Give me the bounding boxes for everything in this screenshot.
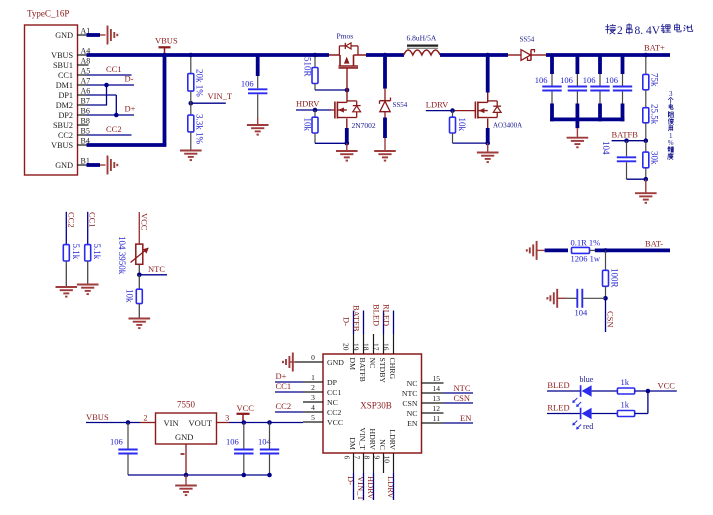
junction VIN_T node (189, 101, 194, 106)
wire 1k to VCC node (635, 390, 677, 392)
wire 2N7002 source to ground (thick) (346, 119, 348, 144)
pin 16 CHRG of U1 (382, 334, 398, 380)
junction gnd bus 106 (242, 473, 247, 478)
svg-text:red: red (583, 422, 593, 431)
junction CSN top (603, 248, 608, 253)
svg-text:20: 20 (342, 343, 351, 351)
wire CC2 from B5 (77, 134, 132, 136)
capacitor C 104 feedback (601, 141, 646, 180)
wire B7 stub (77, 104, 107, 106)
net label VIN_T (208, 91, 233, 101)
pin stub B8 (NC) (77, 124, 89, 126)
svg-text:104: 104 (601, 141, 611, 155)
pin 18 NC of U1 (362, 334, 378, 368)
svg-text:3: 3 (669, 90, 673, 98)
net label NTC at U1 right (454, 383, 471, 393)
net label BAT- (645, 238, 663, 248)
wire 0.1R to BAT- (thick) (595, 248, 670, 252)
junction 2N7002 source node (345, 141, 350, 146)
ground at B1 (rotated) (100, 156, 117, 175)
svg-text:6: 6 (343, 456, 352, 460)
resistor R 5.1k (CC2) (63, 244, 81, 287)
svg-text:CSN: CSN (454, 393, 471, 403)
svg-text:106: 106 (560, 75, 573, 85)
svg-text:D+: D+ (276, 371, 287, 381)
svg-text:VCC: VCC (139, 213, 149, 231)
wire D+ from B6 (77, 114, 134, 116)
svg-text:NC: NC (407, 409, 418, 418)
svg-text:30k: 30k (650, 151, 660, 165)
svg-text:AO3400A: AO3400A (493, 122, 522, 130)
wire diode to BAT+ (thick) (546, 53, 670, 57)
wire LED to 1k (592, 390, 618, 392)
net label D+ at B6 (125, 104, 136, 114)
junction bus at 510R (313, 53, 318, 58)
net label D- at A7 (125, 74, 134, 84)
net label CC2 at U1 (276, 401, 292, 411)
junction HDRV node (313, 108, 318, 113)
svg-text:BLED: BLED (372, 304, 382, 326)
wire 1k to VCC riser (635, 391, 648, 414)
svg-text:BAT-: BAT- (645, 238, 663, 248)
wire cap bank bottom bus (thick) (550, 118, 624, 122)
svg-text:BLED: BLED (547, 380, 569, 390)
resistor R 100R (603, 250, 620, 298)
junction bus at divider (644, 53, 649, 58)
resistor R 1k (BLED) (617, 377, 634, 394)
pin 8 HDRV of U1 (363, 429, 378, 473)
wire VIN_T (191, 91, 226, 103)
capacitor C 106 at VBUS (110, 423, 138, 476)
svg-text:19: 19 (352, 343, 361, 351)
svg-text:NC: NC (407, 379, 418, 388)
svg-text:VCC: VCC (658, 381, 676, 391)
svg-text:LDRV: LDRV (386, 476, 396, 499)
pin stub A8 (NC) (77, 64, 89, 66)
ground under cap bank (567, 119, 589, 147)
svg-text:%: % (668, 139, 674, 147)
regulator U2 7550 designator (177, 400, 196, 410)
wire D- from A7 (77, 84, 134, 86)
net label VCC at LEDs (658, 381, 676, 391)
svg-text:VBUS: VBUS (86, 412, 109, 422)
connector pin A7 DM1 (56, 77, 91, 90)
wire BATFB (612, 123, 646, 141)
pin 6 DM of U1 (343, 437, 358, 473)
capacitor C 104 sense (566, 289, 606, 318)
pin 9 NC of U1 (373, 439, 388, 473)
svg-text:CC2: CC2 (66, 212, 76, 228)
wire HDRV at U1 bottom (373, 473, 375, 500)
svg-text:CC2: CC2 (327, 408, 341, 417)
ground under 2N7002 (336, 143, 358, 160)
connector pin B8 SBU2 (53, 117, 90, 130)
net label CC1 at U1 (276, 381, 292, 391)
svg-text:3.3k 1%: 3.3k 1% (195, 114, 205, 145)
svg-text:B5: B5 (81, 127, 90, 136)
annotation battery title (chinese) (606, 24, 693, 37)
wire BLED at U1 top (383, 311, 385, 335)
net label CSN at U1 right (454, 393, 471, 403)
wire A6 DP1 (77, 95, 116, 115)
svg-text:100R: 100R (610, 268, 620, 288)
transistor Q3 AO3400A (475, 101, 522, 130)
pin 2 of 7550 (144, 413, 148, 422)
pin 19 BATFB of U1 (352, 334, 368, 382)
wire BATFB at U1 top (363, 311, 365, 335)
svg-text:6.8uH/5A: 6.8uH/5A (407, 34, 437, 43)
wire DM1 to DM2 vertical (106, 85, 108, 105)
capacitor C 106 input (241, 76, 268, 118)
svg-text:HDRV: HDRV (296, 99, 320, 109)
svg-text:7550: 7550 (177, 400, 196, 410)
connector pin A1 GND (55, 27, 90, 40)
net label HDRV at U1 bottom (366, 476, 376, 500)
connector pin B6 DP2 (58, 107, 89, 120)
resistor R 5.1k (CC1) (85, 244, 103, 285)
svg-text:NTC: NTC (454, 383, 471, 393)
svg-text:blue: blue (580, 375, 594, 384)
connector pin A5 CC1 (58, 67, 90, 80)
svg-text:GND: GND (327, 358, 344, 367)
svg-text:DM: DM (348, 358, 357, 371)
svg-text:CC2: CC2 (276, 401, 292, 411)
svg-text:VOUT: VOUT (189, 418, 213, 428)
junction CSN node (603, 296, 608, 301)
junction PMOS gate node (345, 88, 350, 93)
svg-text:CC2: CC2 (106, 124, 122, 134)
wire to SS54 anode (thick) (383, 57, 387, 101)
pin 7 VIN_T of U1 (353, 427, 368, 473)
inductor L1 6.8uH/5A (404, 34, 440, 56)
wire CC1 to U1 (275, 391, 303, 393)
wire 7550 ground bus (128, 474, 270, 476)
wire A1 GND (thick) (77, 34, 100, 36)
junction VCC node (242, 420, 247, 425)
wire PMOS gate node to 2N7002 drain (346, 90, 348, 102)
junction bus at SS54 freewheel (383, 53, 388, 58)
net label EN at U1 right (460, 413, 471, 423)
ground under AO3400A (477, 143, 499, 162)
svg-text:8: 8 (363, 456, 372, 460)
resistor R 510R (303, 57, 319, 84)
connector pin B4 VBUS (51, 137, 90, 150)
svg-text:5: 5 (311, 413, 315, 422)
wire inductor to diode (thick) (440, 53, 508, 57)
svg-text:B7: B7 (81, 97, 90, 106)
svg-text:D-: D- (342, 317, 352, 326)
wire D- at U1 bottom (353, 473, 355, 500)
svg-text:B8: B8 (81, 117, 90, 126)
wire RLED (547, 413, 581, 415)
svg-text:RLED: RLED (382, 304, 392, 326)
svg-text:9: 9 (373, 456, 382, 460)
svg-text:106: 106 (226, 437, 239, 447)
junction gnd bus center (184, 473, 189, 478)
svg-text:HDRV: HDRV (366, 476, 376, 500)
svg-text:VCC: VCC (327, 418, 343, 427)
pin 3 of 7550 (225, 413, 229, 422)
resistor R 10k (LDRV) (450, 111, 467, 144)
wire to AO3400A drain (thick) (486, 57, 490, 102)
net label LDRV (426, 100, 449, 110)
thermistor RT 104 3950k (117, 236, 149, 275)
net label CC2 at B5 (106, 124, 122, 134)
net label LDRV at U1 bottom (386, 476, 396, 499)
svg-text:A6: A6 (81, 87, 91, 96)
svg-text:DP1: DP1 (58, 91, 73, 100)
pin 10 LDRV of U1 (383, 429, 398, 473)
svg-text:CSN: CSN (606, 311, 616, 328)
junction AO3400A source node (485, 141, 490, 146)
wire 10k to AO3400A source (453, 142, 488, 144)
connector pin A6 DP1 (58, 87, 90, 100)
svg-text:15: 15 (433, 374, 441, 383)
resistor R 25.5k (643, 90, 660, 125)
svg-text:A7: A7 (81, 77, 91, 86)
junction VCC cap 104 (267, 420, 272, 425)
connector pin A8 SBU1 (53, 57, 90, 70)
svg-text:2N7002: 2N7002 (352, 121, 376, 130)
svg-text:75k: 75k (650, 73, 660, 87)
svg-text:CC2: CC2 (58, 131, 73, 140)
junction BATFB at cap (624, 138, 629, 143)
wire RLED at U1 top (393, 311, 395, 335)
svg-text:106: 106 (583, 75, 596, 85)
pin 13 CSN of U1 (402, 394, 443, 408)
pin 3 NC of U1 (303, 393, 338, 407)
svg-text:NTC: NTC (402, 389, 418, 398)
junction VCC LED node (646, 389, 651, 394)
svg-text:GND: GND (55, 31, 73, 40)
ground under CC1 resistor (77, 285, 99, 295)
svg-text:SS54: SS54 (393, 101, 408, 109)
pin 11 EN of U1 (407, 414, 443, 428)
resistor R 30k (643, 141, 660, 180)
svg-text:CC1: CC1 (276, 381, 292, 391)
svg-text:25.5k: 25.5k (650, 104, 660, 125)
wire NTC (139, 274, 167, 276)
net label VCC (thermistor) (139, 212, 149, 244)
svg-text:VBUS: VBUS (51, 51, 73, 60)
pin 5 VCC of U1 (303, 413, 343, 427)
svg-text:B6: B6 (81, 107, 90, 116)
power port VBUS top (155, 36, 178, 54)
resistor R 75k (643, 57, 660, 90)
svg-text:RLED: RLED (547, 403, 569, 413)
wire VBUS riser from B4 (thick) (77, 55, 166, 145)
ground under input 106 (247, 118, 269, 135)
svg-text:DP2: DP2 (58, 111, 73, 120)
svg-text:13: 13 (433, 394, 441, 403)
svg-text:CC1: CC1 (88, 212, 98, 228)
svg-text:17: 17 (372, 343, 381, 351)
svg-text:BAT+: BAT+ (644, 43, 665, 53)
svg-text:2: 2 (617, 25, 623, 37)
capacitor C 104 at VCC (258, 423, 279, 476)
svg-text:VBUS: VBUS (51, 141, 73, 150)
net label HDRV (296, 99, 320, 109)
net label CC1 (pulldown) (88, 212, 98, 245)
resistor R 3.3k 1% (188, 103, 205, 144)
svg-text:BATFB: BATFB (612, 130, 639, 140)
connector J1 TypeC_16P body (25, 25, 78, 175)
svg-text:SBU2: SBU2 (53, 121, 73, 130)
svg-text:106: 106 (535, 75, 548, 85)
junction bus at 20k divider (189, 53, 194, 58)
wire D- at U1 top (353, 311, 355, 335)
svg-text:7: 7 (353, 456, 362, 460)
svg-text:SS54: SS54 (520, 36, 535, 44)
wire LED to 1k (red) (592, 413, 618, 415)
junction gnd bus 104 (267, 473, 272, 478)
svg-text:CC1: CC1 (327, 388, 341, 397)
wire VIN_T at U1 bottom (363, 473, 365, 500)
junction bus at VBUS riser (162, 53, 167, 58)
wire AO3400A source to ground (thick) (487, 119, 489, 144)
wire LDRV (426, 110, 476, 112)
wire CSN at U1 right (444, 402, 474, 404)
svg-text:DM: DM (348, 437, 357, 450)
wire 10k to 2N7002 source (315, 142, 347, 144)
pin 15 NC of U1 (407, 374, 444, 388)
wire D+ to U1 (275, 381, 303, 383)
svg-text:VIN: VIN (164, 418, 179, 428)
svg-text:A5: A5 (81, 67, 91, 76)
svg-text:14: 14 (433, 384, 441, 393)
ground at 0.1R (rotated) (527, 241, 545, 260)
pin 1 DP of U1 (303, 373, 338, 387)
svg-text:TypeC_16P: TypeC_16P (27, 9, 69, 19)
svg-text:STDBY: STDBY (378, 358, 387, 384)
svg-text:20k 1%: 20k 1% (195, 69, 205, 97)
svg-text:Pmos: Pmos (337, 32, 354, 41)
svg-text:LDRV: LDRV (426, 100, 449, 110)
resistor R 10k (HDRV) (303, 110, 319, 143)
svg-text:104 3950k: 104 3950k (117, 236, 127, 275)
connector pin B1 GND (55, 157, 90, 170)
net label D+ at U1 (276, 371, 287, 381)
svg-text:DM2: DM2 (56, 101, 73, 110)
capacitor C 106 output #1 (535, 55, 562, 121)
junction VBUS cap (126, 420, 131, 425)
svg-text:VIN_T: VIN_T (356, 476, 366, 501)
svg-text:CSN: CSN (402, 399, 418, 408)
net label CSN (vertical) (606, 298, 616, 332)
LED D3 blue (572, 375, 593, 407)
ground under SS54 (374, 151, 396, 161)
svg-text:DP: DP (327, 378, 338, 387)
capacitor C 106 output #3 (583, 55, 610, 121)
wire 7550 GND pin (185, 444, 187, 475)
pin 20 DM of U1 (342, 334, 358, 370)
net label CC1 at A5 (106, 64, 122, 74)
svg-text:3: 3 (225, 413, 229, 422)
svg-text:EN: EN (407, 419, 418, 428)
svg-text:XSP30B: XSP30B (360, 401, 392, 411)
ground under CC2 resistor (56, 287, 78, 297)
power port VCC at 7550 (237, 403, 255, 423)
wire 510R to PMOS gate node (315, 84, 347, 91)
svg-text:16: 16 (382, 343, 391, 351)
pin 2 CC1 of U1 (303, 383, 341, 397)
connector pin A4 VBUS (51, 47, 90, 60)
svg-text:18: 18 (362, 343, 371, 351)
ground under 3.3k (180, 132, 202, 160)
svg-text:1: 1 (311, 373, 315, 382)
net label CC2 (pulldown) (66, 212, 76, 245)
junction on D- wire (104, 83, 109, 88)
pin 0 GND of U1 (295, 353, 344, 367)
svg-text:510R: 510R (303, 57, 313, 77)
wire SS54 cathode to ground (thick) (384, 112, 386, 151)
wire BLED (547, 390, 581, 392)
net label BATFB (612, 130, 639, 140)
svg-text:10k: 10k (124, 289, 134, 303)
net label RLED at LED (547, 403, 569, 413)
svg-text:10k: 10k (457, 118, 467, 132)
resistor R 0.1R 1% 1206 1w (571, 237, 601, 263)
junction BATFB at divider (644, 138, 649, 143)
svg-text:1k: 1k (621, 377, 630, 387)
svg-text:CC1: CC1 (58, 71, 73, 80)
net label D- at U1 top (342, 317, 352, 326)
LED D4 red (572, 408, 593, 431)
svg-text:106: 106 (605, 75, 618, 85)
transistor Q1 Pmos label (337, 32, 354, 41)
wire HDRV (296, 109, 335, 111)
svg-text:1206 1w: 1206 1w (571, 254, 601, 264)
svg-text:1k: 1k (621, 400, 630, 410)
svg-text:A8: A8 (81, 57, 91, 66)
junction bus at AO3400A drain (485, 53, 490, 58)
svg-text:0: 0 (311, 353, 315, 362)
svg-text:HDRV: HDRV (368, 429, 377, 451)
resistor R 20k 1% (188, 57, 205, 97)
net label BLED at U1 top (372, 304, 382, 326)
wire LDRV at U1 bottom (393, 473, 395, 500)
net label NTC (148, 264, 165, 274)
svg-text:VCC: VCC (237, 403, 255, 413)
ground at U1 pin 0 (rotated) (283, 353, 295, 372)
pin 12 NC of U1 (407, 404, 444, 418)
svg-text:NC: NC (378, 439, 387, 450)
svg-text:5.1k: 5.1k (71, 244, 81, 260)
svg-text:BATFB: BATFB (358, 358, 367, 382)
connector pin B5 CC2 (58, 127, 90, 140)
capacitor C 106 output #2 (560, 55, 587, 121)
svg-text:D+: D+ (125, 104, 136, 114)
pin 4 CC2 of U1 (303, 403, 341, 417)
ground under NTC 10k (129, 319, 151, 329)
svg-text:VBUS: VBUS (155, 36, 178, 46)
svg-text:10k: 10k (303, 118, 313, 132)
svg-text:2: 2 (311, 383, 315, 392)
svg-text:104: 104 (575, 308, 589, 318)
svg-text:11: 11 (433, 414, 440, 423)
svg-text:SBU1: SBU1 (53, 61, 73, 70)
transistor Q1 PMOS (329, 43, 366, 90)
wire bus PMOS to inductor (thick) (366, 53, 404, 57)
wire 7550 VOUT to VCC (217, 422, 304, 424)
wire CC2 to U1 (275, 411, 303, 413)
wire EN at U1 right (444, 422, 474, 424)
pin 14 NTC of U1 (402, 384, 444, 398)
wire CC1 from A5 (77, 74, 132, 76)
net label D- at U1 bottom (346, 476, 356, 485)
svg-text:D-: D- (346, 476, 356, 485)
diode D2 SS54 output (508, 36, 546, 61)
